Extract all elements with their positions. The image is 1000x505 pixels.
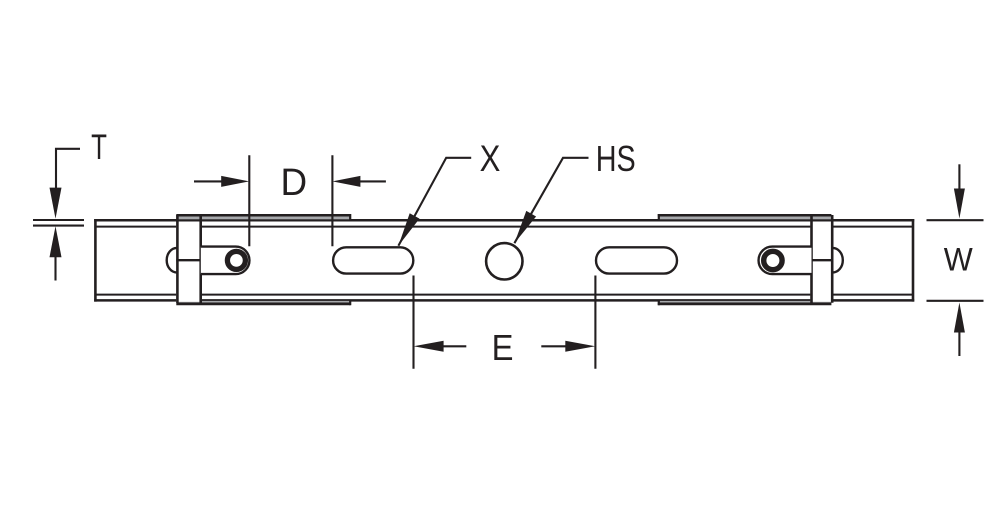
bottom-right splice plate left end cap: [658, 300, 660, 306]
top-right splice plate gray fill: [658, 216, 831, 219]
left bolt tab: [201, 247, 250, 275]
hole HS: [486, 243, 522, 279]
right clamp right edge: [831, 215, 834, 303]
label X leader: [398, 158, 471, 246]
dimension W top dim line: [958, 164, 960, 190]
bottom-right splice plate gray fill: [658, 301, 831, 303]
dimension D right extension line: [331, 155, 333, 246]
svg-text:X: X: [480, 139, 501, 180]
dimension E right arrow: [565, 341, 595, 352]
svg-text:W: W: [944, 242, 973, 278]
top-left splice plate top edge: [176, 214, 350, 217]
dimension W top extension line: [927, 219, 984, 221]
right bolt tab: [759, 247, 812, 275]
dimension E left extension line: [412, 276, 414, 369]
dimension E right extension line: [594, 276, 596, 369]
bottom-left splice plate gray fill: [176, 301, 350, 303]
rail bottom inner line: [96, 294, 913, 296]
bottom-right splice plate bottom edge: [658, 303, 832, 306]
dimension D left extension line: [248, 155, 250, 246]
dimension D right arrow: [332, 176, 360, 187]
top-right splice plate top edge: [658, 214, 832, 217]
left clamp mid line: [176, 259, 202, 261]
label HS arrowhead: [514, 211, 536, 243]
label HS leader: [514, 158, 588, 243]
bottom-left splice plate bottom edge: [176, 303, 350, 306]
right clamp hook arc: [833, 248, 843, 273]
svg-text:HS: HS: [596, 138, 636, 179]
svg-text:E: E: [492, 329, 514, 369]
left clamp right edge: [199, 215, 202, 303]
left clamp white band: [176, 222, 202, 302]
rail top outer line: [94, 219, 914, 222]
rail left end edge: [94, 219, 97, 302]
svg-text:D: D: [280, 160, 307, 203]
right clamp left edge: [810, 215, 813, 303]
dimension E left arrow: [414, 341, 444, 352]
left bolt ring: [227, 251, 245, 269]
svg-text:T: T: [91, 127, 107, 167]
dimension W bottom extension line: [927, 300, 984, 302]
dimension W top arrow: [954, 189, 965, 219]
top-left splice plate right end cap: [349, 214, 351, 221]
slot 2: [596, 247, 677, 273]
top-right splice plate left end cap: [658, 214, 660, 221]
right clamp mid line: [811, 259, 834, 261]
dimension W bottom dim line: [958, 330, 960, 356]
rail bottom outer line: [94, 299, 914, 302]
slot 1 (X slot): [333, 247, 413, 273]
rail right end edge: [912, 219, 915, 302]
dimension D left arrow: [221, 176, 249, 187]
right bolt ring: [764, 251, 782, 269]
top-left splice plate gray fill: [176, 216, 350, 219]
dimension T lower tail: [54, 255, 56, 281]
left clamp hook arc: [167, 248, 177, 273]
label X arrowhead: [398, 213, 419, 246]
left clamp left edge: [176, 215, 179, 303]
dimension W bottom arrow: [954, 303, 965, 333]
dimension T leader: [56, 149, 80, 190]
bottom-left splice plate right end cap: [349, 300, 351, 306]
right clamp white band: [810, 222, 833, 302]
rail top inner line: [96, 226, 913, 228]
dimension T thickness lines: [33, 219, 84, 221]
dimension T lower arrow: [50, 226, 62, 257]
dimension T upper arrow: [50, 188, 62, 219]
